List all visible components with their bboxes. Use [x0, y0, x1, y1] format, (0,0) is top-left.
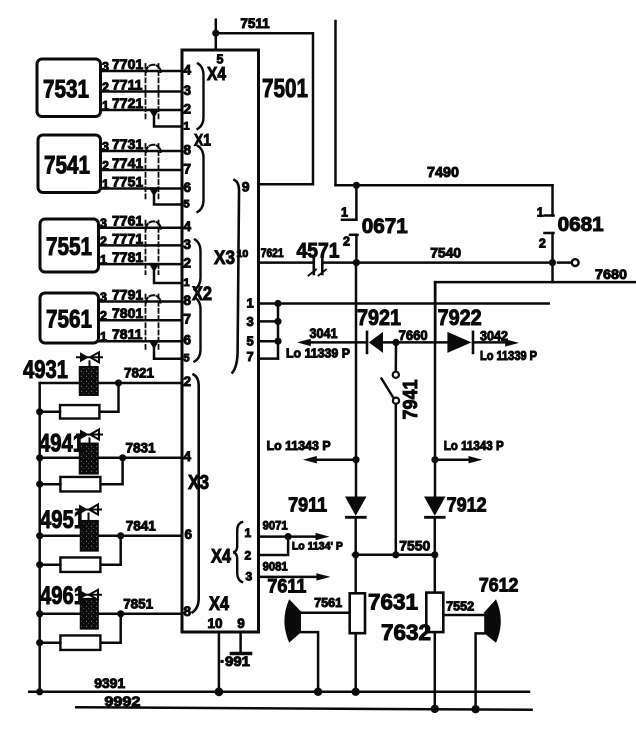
svg-text:9: 9	[242, 179, 250, 195]
svg-text:7621: 7621	[261, 246, 284, 260]
junction right	[431, 456, 438, 463]
svg-text:5: 5	[184, 353, 190, 365]
cable loop arc	[146, 65, 161, 72]
resistor wire to rail	[40, 483, 61, 486]
wire 7660 segment	[383, 341, 447, 344]
svg-text:7540: 7540	[430, 245, 461, 261]
svg-text:X4: X4	[207, 64, 226, 84]
svg-text:7552: 7552	[446, 600, 474, 614]
junction switch	[392, 339, 399, 346]
resistor 7631	[354, 555, 357, 594]
connector 0681 pin 1	[551, 185, 554, 215]
wire Lo 11343 P right arrow	[435, 458, 472, 461]
svg-text:7550: 7550	[399, 538, 430, 554]
bus output wire	[278, 302, 549, 305]
wire 7711	[101, 90, 183, 93]
svg-text:Lo 11343 P: Lo 11343 P	[444, 439, 504, 453]
wire 9081 arrow	[259, 576, 320, 579]
svg-text:4961: 4961	[40, 582, 85, 610]
svg-text:·991: ·991	[220, 654, 251, 669]
junction 7490/0671	[353, 182, 360, 189]
svg-text:7912: 7912	[447, 495, 487, 517]
svg-text:1: 1	[184, 121, 190, 133]
shield wire	[154, 117, 182, 127]
shield connection triangle	[148, 263, 159, 272]
speaker 7612	[484, 599, 501, 643]
wire 7731	[101, 150, 183, 153]
svg-text:7941: 7941	[400, 380, 422, 420]
svg-text:Lo 11339 P: Lo 11339 P	[480, 349, 537, 363]
svg-text:1: 1	[184, 277, 190, 289]
capacitor 4571 plates	[312, 256, 315, 274]
svg-text:7511: 7511	[240, 16, 270, 31]
lamp symbol above 4931	[77, 356, 102, 358]
svg-text:9992: 9992	[104, 693, 140, 709]
svg-text:7831: 7831	[126, 439, 156, 455]
resistor wire to rail	[40, 641, 61, 644]
cable loop arc	[146, 145, 161, 152]
wire 7552	[443, 614, 486, 617]
cell 4941 main wire 7831	[40, 457, 182, 460]
svg-text:X1: X1	[194, 131, 211, 150]
svg-text:7660: 7660	[399, 328, 428, 343]
lamp symbol above 4941	[77, 434, 102, 436]
drop wire to resistor	[100, 536, 120, 565]
svg-text:7811: 7811	[112, 326, 143, 342]
ground rail 9391	[29, 691, 529, 694]
svg-text:3: 3	[246, 570, 253, 584]
svg-text:2: 2	[100, 234, 107, 248]
cable marker dashed lines	[145, 64, 147, 120]
rail 7922 down	[434, 282, 437, 460]
svg-text:6: 6	[184, 180, 192, 195]
cable marker dashed lines	[145, 144, 147, 199]
svg-text:7632: 7632	[381, 620, 431, 645]
wire 7511	[216, 33, 313, 184]
svg-text:7731: 7731	[112, 136, 143, 152]
svg-text:3: 3	[100, 217, 107, 231]
pin 2 loop wire	[259, 537, 289, 555]
svg-text:7631: 7631	[368, 590, 418, 615]
drop wire to resistor	[100, 458, 122, 484]
svg-text:7922: 7922	[438, 305, 482, 330]
svg-text:2: 2	[245, 549, 252, 563]
svg-text:3: 3	[100, 291, 107, 305]
svg-text:7501: 7501	[262, 73, 308, 103]
svg-text:7561: 7561	[46, 306, 92, 334]
svg-text:7611: 7611	[267, 577, 306, 598]
wire 7680	[551, 263, 554, 283]
shield wire	[154, 196, 182, 205]
svg-text:7781: 7781	[112, 249, 143, 265]
rail junction at resistor	[36, 481, 43, 488]
svg-text:7: 7	[184, 312, 192, 327]
lamp symbol above 4951	[76, 509, 101, 511]
svg-text:Lo 11343 P: Lo 11343 P	[267, 439, 331, 453]
svg-text:6: 6	[185, 527, 193, 542]
svg-text:1: 1	[537, 206, 544, 220]
svg-text:7771: 7771	[112, 230, 143, 246]
unit box 7561	[40, 293, 99, 343]
wire 7540	[324, 261, 553, 264]
svg-text:1: 1	[245, 526, 252, 540]
svg-text:7561: 7561	[314, 596, 342, 610]
svg-text:7701: 7701	[112, 56, 143, 72]
wire 7801	[99, 319, 183, 322]
junction on wire	[117, 610, 124, 617]
svg-text:X2: X2	[192, 284, 212, 305]
wire 3041 arrow left	[307, 341, 367, 344]
svg-text:7801: 7801	[112, 305, 143, 321]
pin 1 stub	[259, 302, 279, 305]
speaker 7611 return wire	[299, 632, 318, 692]
svg-text:7711: 7711	[112, 77, 143, 93]
svg-text:3: 3	[184, 237, 192, 252]
resistor of cell 4961	[60, 635, 100, 650]
photo-resistor 4931 body	[80, 367, 99, 396]
svg-text:2: 2	[343, 235, 350, 249]
diode 7911	[355, 460, 358, 497]
junction rail b	[215, 687, 224, 696]
svg-text:8: 8	[184, 293, 192, 308]
svg-text:Lo 1134' P: Lo 1134' P	[292, 541, 343, 553]
cell 4931 main wire 7821	[40, 382, 182, 385]
svg-text:1: 1	[341, 206, 348, 220]
wire 7701	[101, 70, 183, 73]
junction on pin 5 stub	[212, 30, 219, 37]
svg-text:7751: 7751	[112, 174, 143, 190]
junction rail2 b	[471, 705, 479, 713]
photo-resistor 4961 body	[81, 599, 99, 629]
svg-text:4571: 4571	[297, 240, 340, 263]
wire 7561	[299, 611, 350, 614]
photo-resistor 4941 body	[80, 443, 99, 474]
cable loop arc	[146, 295, 161, 302]
ground rail 9992	[76, 707, 531, 710]
svg-text:4941: 4941	[39, 430, 84, 458]
svg-text:4951: 4951	[40, 506, 85, 534]
svg-text:7821: 7821	[124, 365, 154, 381]
wire 7811	[99, 340, 183, 343]
shield connection triangle	[148, 340, 159, 349]
svg-text:3042: 3042	[480, 329, 508, 344]
ground symbol 9991	[232, 652, 251, 656]
svg-text:2: 2	[184, 102, 192, 117]
svg-text:X4: X4	[211, 547, 231, 568]
connector X1 bracket (pins 8,7,6,5)	[198, 146, 204, 212]
IC U7501 outline	[182, 50, 259, 632]
wire 7761	[99, 226, 183, 229]
photo-resistor 4951 body	[81, 521, 99, 551]
connector X4 brace	[233, 522, 242, 582]
svg-text:6: 6	[184, 333, 192, 348]
speaker 7611	[284, 599, 301, 642]
wire 7490	[336, 184, 553, 187]
svg-text:1: 1	[247, 296, 254, 311]
connector X2 upper bracket (pins 4,3,2,1)	[195, 240, 201, 290]
cable marker dashed lines	[145, 295, 147, 352]
svg-text:2: 2	[102, 159, 109, 173]
cell 4951 main wire 7841	[40, 535, 182, 538]
svg-text:3: 3	[102, 140, 109, 154]
vertical rail from top	[334, 21, 337, 185]
svg-text:2: 2	[100, 309, 107, 323]
unit box 7531	[37, 59, 101, 117]
svg-text:7741: 7741	[112, 155, 143, 171]
svg-text:5: 5	[247, 334, 254, 349]
junction 7550 b	[392, 551, 399, 558]
junction pin5	[274, 338, 281, 345]
svg-text:7551: 7551	[46, 233, 92, 261]
junction 7540 right	[549, 259, 556, 266]
junction on wire	[119, 454, 126, 461]
connector X2 lower bracket (pins 8,7,6,5)	[195, 298, 201, 362]
switch 7941	[395, 342, 398, 371]
svg-text:4: 4	[184, 449, 192, 464]
rail junction at resistor	[36, 561, 43, 568]
svg-text:4: 4	[184, 63, 192, 78]
shield connection triangle	[148, 187, 159, 196]
drop wire to resistor	[99, 383, 118, 412]
svg-text:Lo 11339 P: Lo 11339 P	[286, 347, 350, 361]
connector X4 bracket (pins 4,3,2,1)	[198, 64, 204, 130]
unit box 7541	[38, 135, 101, 193]
rail junction	[36, 532, 43, 539]
open terminal	[558, 261, 571, 264]
wire 7771	[99, 244, 183, 247]
resistor wire to rail	[40, 563, 61, 566]
wire 7621	[259, 261, 312, 264]
svg-text:10: 10	[208, 616, 223, 631]
arrow Lo 1134x P	[288, 535, 318, 538]
svg-text:8: 8	[184, 143, 192, 158]
rail junction at resistor	[36, 408, 43, 415]
svg-text:1: 1	[102, 99, 109, 113]
junction rail2 a	[431, 705, 439, 713]
junction pin3	[274, 318, 281, 325]
resistor 7632	[434, 555, 437, 593]
resistor of cell 4941	[60, 477, 100, 492]
junction on wire	[115, 379, 122, 386]
resistor of cell 4951	[60, 557, 100, 572]
wire 7791	[99, 300, 183, 303]
wire 7721	[101, 109, 183, 112]
svg-text:4: 4	[184, 219, 192, 234]
junction rail c	[314, 688, 322, 696]
svg-text:0671: 0671	[362, 215, 408, 238]
svg-text:7841: 7841	[126, 517, 156, 533]
svg-text:3: 3	[247, 314, 254, 329]
junction 7550 a	[352, 551, 359, 558]
svg-text:7911: 7911	[288, 495, 327, 517]
rail junction at resistor	[36, 639, 43, 646]
svg-text:7851: 7851	[123, 595, 153, 611]
pin 5 top stub	[215, 20, 218, 50]
junction pin1	[274, 300, 281, 307]
svg-text:7490: 7490	[427, 165, 459, 181]
svg-text:9391: 9391	[94, 675, 125, 691]
svg-text:9: 9	[237, 616, 245, 631]
junction rail a	[36, 688, 43, 695]
wire 3042 arrow right	[473, 341, 508, 344]
svg-text:7612: 7612	[479, 576, 519, 597]
svg-text:7541: 7541	[44, 151, 90, 179]
svg-text:1: 1	[100, 253, 107, 267]
shield wire	[154, 348, 182, 359]
wire 7781	[99, 263, 183, 266]
rail junction	[36, 454, 43, 461]
wire 7550	[353, 554, 436, 557]
rail junction	[36, 610, 43, 617]
svg-text:1: 1	[100, 330, 107, 344]
rail 0671 down	[355, 263, 358, 460]
svg-text:X3: X3	[188, 472, 209, 494]
cell 4961 main wire 7851	[40, 613, 182, 616]
svg-text:3: 3	[102, 60, 109, 74]
connector X3 bracket (pins 2,4,6,8)	[193, 375, 199, 613]
inner bracket with pin 9	[233, 180, 240, 373]
wire 7751	[101, 187, 183, 190]
pin 7 stub	[259, 357, 279, 360]
svg-text:7: 7	[247, 349, 254, 364]
svg-text:0681: 0681	[558, 214, 604, 236]
svg-text:2: 2	[539, 237, 546, 251]
lamp symbol above 4961	[76, 594, 101, 596]
svg-text:1: 1	[102, 178, 109, 192]
svg-text:9081: 9081	[263, 560, 288, 574]
svg-text:7680: 7680	[595, 266, 627, 282]
svg-text:3: 3	[184, 83, 192, 98]
svg-text:X3: X3	[214, 248, 235, 269]
svg-text:5: 5	[184, 199, 190, 211]
svg-text:7791: 7791	[112, 287, 143, 303]
junction 7550 c	[431, 551, 438, 558]
diode 7912	[434, 460, 437, 497]
svg-text:7531: 7531	[43, 75, 89, 103]
svg-text:2: 2	[184, 256, 192, 271]
pin 10 wire to rail	[218, 632, 221, 692]
resistor wire to rail	[40, 411, 60, 414]
cable marker dashed lines	[145, 221, 147, 274]
junction 9071	[285, 533, 292, 540]
junction on wire	[117, 532, 124, 539]
junction 7540 left	[353, 259, 360, 266]
left supply rail	[38, 383, 41, 692]
diode 7922	[447, 332, 471, 353]
svg-text:7921: 7921	[357, 305, 401, 330]
svg-text:X4: X4	[209, 594, 229, 615]
unit box 7551	[40, 219, 99, 272]
wire Lo 11343 P left arrow	[313, 458, 356, 461]
junction rail d	[352, 688, 360, 696]
wire 7741	[101, 169, 183, 172]
svg-text:2: 2	[184, 374, 192, 389]
svg-text:7721: 7721	[112, 95, 143, 111]
speaker 7612 return wire	[476, 633, 486, 709]
svg-text:7: 7	[184, 162, 192, 177]
pin 9 ground wire	[239, 632, 242, 653]
shield connection triangle	[148, 109, 159, 118]
connector 0671 pin 1	[355, 185, 358, 219]
pin 5 stub	[259, 340, 279, 343]
svg-text:3041: 3041	[310, 326, 338, 341]
svg-text:4931: 4931	[23, 356, 68, 384]
pin 3 stub	[259, 320, 279, 323]
shield wire	[154, 271, 182, 283]
svg-text:7761: 7761	[112, 213, 143, 229]
pin bus bar	[277, 304, 280, 359]
diode 7921	[366, 332, 369, 353]
cable loop arc	[146, 221, 161, 228]
svg-text:8: 8	[184, 604, 192, 619]
svg-text:9071: 9071	[263, 519, 288, 533]
drop wire to resistor	[100, 614, 120, 643]
svg-text:2: 2	[102, 81, 109, 95]
junction left	[352, 456, 359, 463]
wire 9071	[259, 535, 289, 538]
resistor of cell 4931	[60, 405, 99, 419]
svg-text:10: 10	[237, 248, 249, 260]
